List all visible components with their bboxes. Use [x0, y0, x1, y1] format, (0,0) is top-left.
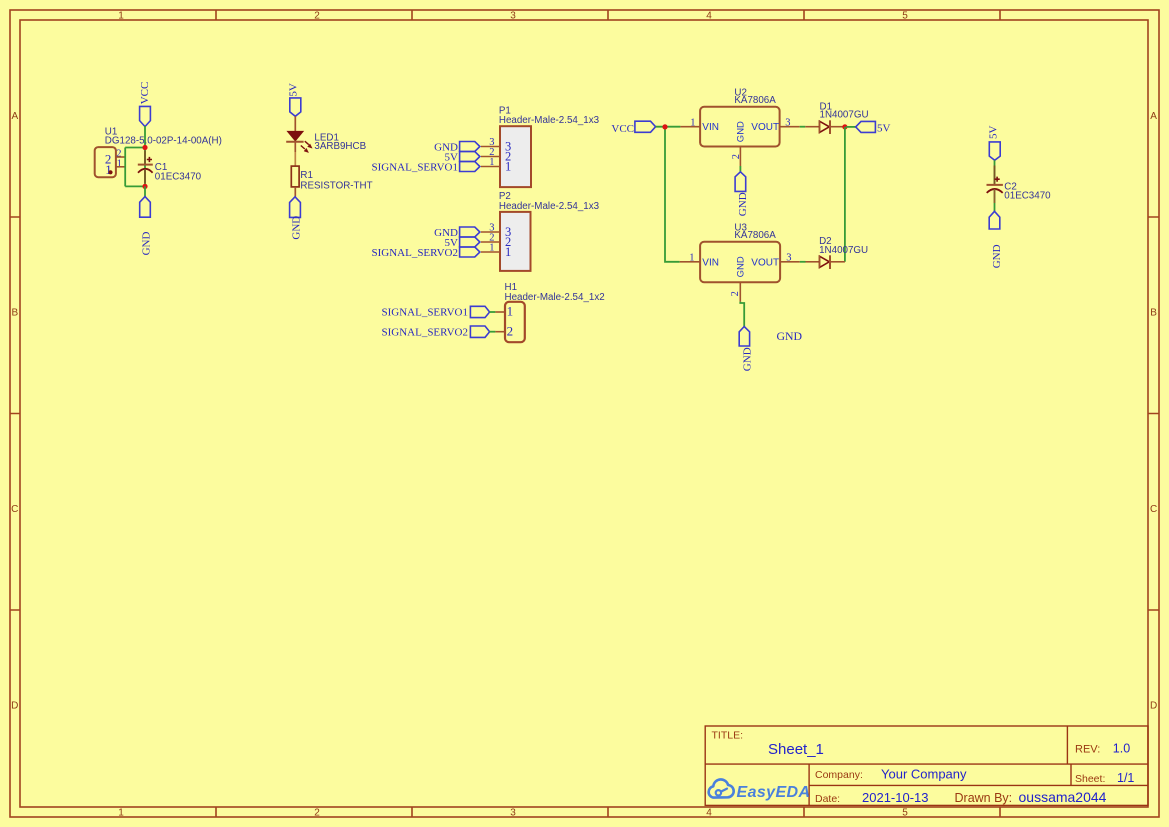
- net flag VCC symbol: [635, 121, 656, 132]
- svg-text:B: B: [1150, 308, 1157, 319]
- svg-text:1: 1: [105, 162, 112, 177]
- capacitor C2 bottom arc: [987, 189, 1003, 193]
- svg-text:VCC: VCC: [139, 82, 151, 105]
- svg-text:A: A: [11, 111, 18, 122]
- pin 3 stub (P1): [481, 146, 500, 148]
- svg-text:1: 1: [505, 245, 511, 259]
- pin 1 stub (U1): [116, 166, 125, 168]
- LED LED1 light arrow 1: [305, 141, 312, 148]
- LED1 cathode pin: [294, 142, 296, 152]
- svg-text:Header-Male-2.54_1x3: Header-Male-2.54_1x3: [499, 201, 600, 212]
- svg-text:2: 2: [731, 154, 742, 159]
- connector H1 body: [505, 302, 525, 342]
- pin 2 stub (U1): [116, 156, 125, 158]
- junction 5V node: [842, 124, 847, 129]
- junction node bottom (U1/C1): [142, 184, 147, 189]
- wire node to node through C1: [144, 148, 146, 187]
- ground flag GND (LED): [290, 197, 301, 218]
- svg-text:oussama2044: oussama2044: [1019, 789, 1107, 805]
- diode D1 cathode pin: [830, 126, 844, 128]
- R1 bottom pin: [294, 187, 296, 197]
- svg-text:1: 1: [489, 242, 494, 253]
- capacitor C1 top plate: [138, 164, 153, 166]
- pin 2 stub (H1): [495, 331, 505, 333]
- pin 3 stub (P2): [481, 231, 500, 233]
- svg-text:GND: GND: [777, 329, 803, 343]
- svg-text:KA7806A: KA7806A: [734, 95, 776, 106]
- regulator U2 body: [700, 107, 780, 147]
- capacitor C2 top pin: [994, 166, 996, 185]
- net flag 5V (P2): [460, 237, 480, 247]
- ground flag GND (U1): [140, 197, 151, 218]
- svg-text:GND: GND: [741, 347, 753, 371]
- wire VCC down to U3 row: [665, 127, 680, 262]
- net flag 5V symbol: [856, 121, 876, 132]
- wire C2 to GND flag: [994, 189, 996, 211]
- svg-text:VCC: VCC: [611, 123, 634, 135]
- svg-text:5: 5: [902, 808, 908, 819]
- pin 3 stub (U3): [780, 261, 800, 263]
- svg-text:GND: GND: [735, 256, 746, 277]
- capacitor C1 bottom pin: [144, 169, 146, 183]
- svg-text:EasyEDA: EasyEDA: [737, 784, 811, 801]
- svg-text:2: 2: [507, 323, 513, 338]
- connector P2 body: [500, 212, 531, 271]
- svg-text:1N4007GU: 1N4007GU: [820, 110, 869, 121]
- svg-text:A: A: [1150, 111, 1157, 122]
- wire VCC flag to node: [144, 126, 146, 148]
- diode D1 triangle: [820, 121, 830, 132]
- LED1 anode pin: [294, 116, 296, 131]
- svg-text:Sheet:: Sheet:: [1075, 773, 1105, 785]
- net flag GND (P2): [460, 227, 480, 237]
- diode D2 triangle: [820, 256, 830, 267]
- svg-text:4: 4: [706, 11, 712, 22]
- svg-text:1: 1: [507, 303, 513, 318]
- svg-text:GND: GND: [991, 244, 1003, 268]
- net flag SIGNAL_SERVO2 (H1): [470, 326, 489, 337]
- pin 2 stub (P2): [481, 241, 500, 243]
- symbol dot inside U1: [108, 170, 112, 174]
- pin 1 stub (P1): [481, 166, 500, 168]
- wire U2 VOUT to D1: [800, 126, 806, 128]
- svg-text:B: B: [11, 308, 18, 319]
- capacitor C1 bottom arc: [138, 169, 153, 173]
- diode D2 anode pin: [806, 261, 820, 263]
- svg-text:SIGNAL_SERVO2: SIGNAL_SERVO2: [381, 327, 468, 339]
- wire flag to pin 1 (H1): [490, 311, 496, 313]
- wire U2 pin2 to GND flag: [739, 166, 741, 172]
- svg-text:2: 2: [314, 808, 320, 819]
- svg-text:3: 3: [786, 253, 791, 264]
- svg-text:3: 3: [510, 11, 516, 22]
- net flag 5V (P1): [460, 152, 480, 162]
- svg-text:1N4007GU: 1N4007GU: [819, 245, 868, 256]
- svg-text:1.0: 1.0: [1113, 742, 1130, 756]
- svg-text:3: 3: [785, 118, 790, 129]
- net flag SIGNAL_SERVO1 (H1): [470, 306, 489, 317]
- diode D1 cathode bar: [829, 120, 831, 134]
- resistor R1 body: [291, 166, 299, 187]
- svg-text:SIGNAL_SERVO1: SIGNAL_SERVO1: [381, 307, 468, 319]
- pin 2 stub (U2): [739, 147, 741, 167]
- net flag SIGNAL_SERVO1 (P1): [460, 162, 480, 172]
- wire LED to R1: [294, 152, 296, 166]
- net flag 5V (C2) symbol: [989, 142, 1000, 160]
- svg-text:5V: 5V: [288, 83, 300, 97]
- ground flag GND (C2): [989, 211, 1000, 229]
- svg-text:VIN: VIN: [702, 122, 719, 133]
- capacitor C1 top pin: [144, 151, 146, 165]
- svg-text:GND: GND: [735, 121, 746, 142]
- svg-text:RESISTOR-THT: RESISTOR-THT: [300, 181, 372, 192]
- svg-text:GND: GND: [290, 216, 302, 240]
- svg-text:5V: 5V: [877, 122, 891, 134]
- net flag VCC (U1) symbol: [140, 106, 151, 126]
- svg-text:Date:: Date:: [815, 793, 840, 805]
- capacitor C1 plus sign: [147, 157, 152, 162]
- connector P1 body: [500, 126, 531, 187]
- title block: [705, 726, 1148, 805]
- svg-text:VOUT: VOUT: [751, 122, 779, 133]
- svg-text:SIGNAL_SERVO1: SIGNAL_SERVO1: [371, 161, 458, 173]
- net flag SIGNAL_SERVO2 (P2): [460, 247, 480, 257]
- svg-text:1: 1: [690, 118, 695, 129]
- svg-text:C: C: [1150, 504, 1157, 515]
- svg-text:VOUT: VOUT: [751, 257, 779, 268]
- svg-text:1: 1: [118, 808, 124, 819]
- svg-text:DG128-5.0-02P-14-00A(H): DG128-5.0-02P-14-00A(H): [105, 135, 222, 146]
- ground flag GND (U3): [739, 327, 749, 347]
- capacitor C2 top plate: [987, 184, 1003, 186]
- regulator U3 body: [700, 242, 780, 282]
- svg-text:1: 1: [118, 11, 124, 22]
- net flag GND (P1): [460, 142, 480, 152]
- wire node to GND flag (U1): [144, 186, 146, 196]
- wire VCC flag to junction and to U2 pin1: [656, 126, 681, 128]
- svg-text:Sheet_1: Sheet_1: [768, 741, 824, 758]
- ground flag GND (U2): [735, 172, 746, 192]
- LED LED1 cathode bar: [286, 141, 303, 143]
- capacitor C2 bottom pin: [994, 189, 996, 203]
- net flag 5V (LED) symbol: [290, 98, 301, 116]
- junction VCC node: [662, 124, 667, 129]
- svg-text:Company:: Company:: [815, 769, 863, 781]
- pin 3 stub (U2): [780, 126, 800, 128]
- svg-text:Drawn By:: Drawn By:: [955, 791, 1013, 805]
- diode D1 anode pin: [805, 126, 819, 128]
- svg-text:TITLE:: TITLE:: [712, 730, 744, 742]
- pin 2 stub (P1): [481, 156, 500, 158]
- capacitor C2 plus sign: [995, 177, 1000, 182]
- svg-text:1/1: 1/1: [1117, 771, 1134, 785]
- wire junction to 5V flag: [846, 126, 856, 128]
- svg-text:Your Company: Your Company: [881, 767, 967, 782]
- svg-text:GND: GND: [141, 232, 153, 256]
- svg-text:1: 1: [689, 253, 694, 264]
- svg-text:3: 3: [510, 808, 516, 819]
- svg-text:1: 1: [505, 159, 511, 173]
- pin 1 stub (U3): [680, 261, 700, 263]
- svg-text:2: 2: [314, 11, 320, 22]
- svg-text:1: 1: [489, 157, 494, 168]
- junction node top (U1/C1): [142, 145, 147, 150]
- svg-text:2021-10-13: 2021-10-13: [862, 790, 929, 805]
- component U1 body: [95, 147, 116, 177]
- svg-text:4: 4: [706, 808, 712, 819]
- wire flag to pin 2 (H1): [490, 331, 496, 333]
- diode D2 cathode bar: [829, 255, 831, 269]
- svg-text:01EC3470: 01EC3470: [1004, 190, 1051, 201]
- wire U3 VOUT to D2: [800, 261, 806, 263]
- svg-text:VIN: VIN: [702, 257, 719, 268]
- pin 1 stub (H1): [495, 311, 505, 313]
- svg-text:5: 5: [902, 11, 908, 22]
- wire U1 pins loop: [125, 148, 145, 187]
- pin 1 stub (P2): [481, 251, 500, 253]
- wire 5V flag to C2: [994, 160, 996, 184]
- svg-text:5V: 5V: [987, 126, 999, 140]
- LED LED1 light arrow 2: [301, 146, 309, 153]
- pin 2 stub (U3): [739, 282, 741, 301]
- svg-text:3ARB9HCB: 3ARB9HCB: [314, 141, 366, 152]
- svg-text:SIGNAL_SERVO2: SIGNAL_SERVO2: [371, 247, 458, 259]
- diode D2 cathode pin: [830, 261, 845, 263]
- svg-text:D: D: [11, 701, 18, 712]
- EasyEDA logo: [709, 779, 811, 800]
- svg-text:1: 1: [117, 158, 122, 169]
- wire 5V node down to D2: [844, 127, 846, 262]
- svg-text:REV:: REV:: [1075, 744, 1100, 756]
- wire U3 pin2 jog to GND flag: [740, 302, 744, 327]
- svg-text:2: 2: [730, 291, 741, 296]
- pin 1 stub (U2): [680, 126, 700, 128]
- svg-text:01EC3470: 01EC3470: [155, 171, 202, 182]
- svg-text:D: D: [1150, 701, 1157, 712]
- svg-text:KA7806A: KA7806A: [734, 230, 776, 241]
- LED LED1 triangle: [288, 131, 304, 140]
- svg-text:C: C: [11, 504, 18, 515]
- svg-text:Header-Male-2.54_1x3: Header-Male-2.54_1x3: [499, 115, 600, 126]
- svg-text:GND: GND: [737, 192, 749, 216]
